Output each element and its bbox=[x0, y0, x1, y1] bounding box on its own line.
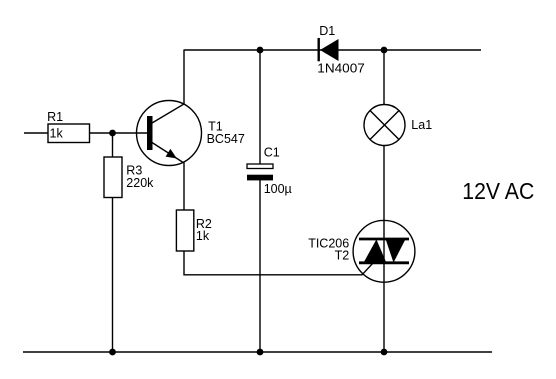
node lamp top bbox=[381, 47, 388, 54]
wire T1 emitter to R2 bbox=[152, 143, 184, 211]
wire R3 bottom to bottom bus bbox=[112, 198, 114, 353]
wire lamp to triac and bottom bus bbox=[383, 146, 385, 353]
wire T1 collector riser bbox=[152, 50, 184, 123]
svg-text:T2: T2 bbox=[335, 249, 350, 263]
wire bottom bus bbox=[23, 351, 492, 353]
node T1 base / R3 bbox=[109, 130, 116, 137]
transistor T1 bbox=[137, 101, 245, 166]
svg-text:1k: 1k bbox=[50, 127, 64, 141]
svg-text:C1: C1 bbox=[264, 146, 280, 160]
wire top bus bbox=[184, 49, 482, 51]
svg-text:1k: 1k bbox=[196, 229, 210, 243]
resistor R1 bbox=[47, 110, 89, 143]
wire node to R3 top bbox=[112, 133, 114, 157]
capacitor C1 bbox=[247, 146, 292, 196]
wire C1 branch lower bbox=[259, 180, 261, 352]
wire R1 to T1 base bbox=[90, 132, 148, 134]
svg-text:D1: D1 bbox=[319, 24, 335, 38]
svg-text:La1: La1 bbox=[411, 118, 432, 132]
triac T2 bbox=[308, 220, 415, 282]
node R3 bottom bbox=[109, 349, 116, 356]
svg-text:220k: 220k bbox=[126, 176, 154, 190]
diode D1 bbox=[317, 24, 365, 75]
svg-text:R1: R1 bbox=[47, 110, 63, 124]
svg-text:12V AC: 12V AC bbox=[462, 178, 534, 204]
svg-text:BC547: BC547 bbox=[207, 132, 245, 146]
node C1 top bbox=[257, 47, 264, 54]
svg-text:1N4007: 1N4007 bbox=[317, 61, 365, 75]
wire input left to R1 bbox=[24, 132, 48, 134]
wire R2 bottom to triac gate bbox=[184, 251, 374, 275]
resistor R2 bbox=[176, 210, 212, 251]
svg-text:100µ: 100µ bbox=[264, 182, 292, 196]
wire C1 branch upper bbox=[259, 50, 261, 165]
node triac bottom bbox=[381, 349, 388, 356]
wire lamp branch upper bbox=[383, 50, 385, 105]
lamp La1 bbox=[364, 105, 432, 146]
resistor R3 bbox=[104, 157, 154, 198]
node C1 bottom bbox=[257, 349, 264, 356]
